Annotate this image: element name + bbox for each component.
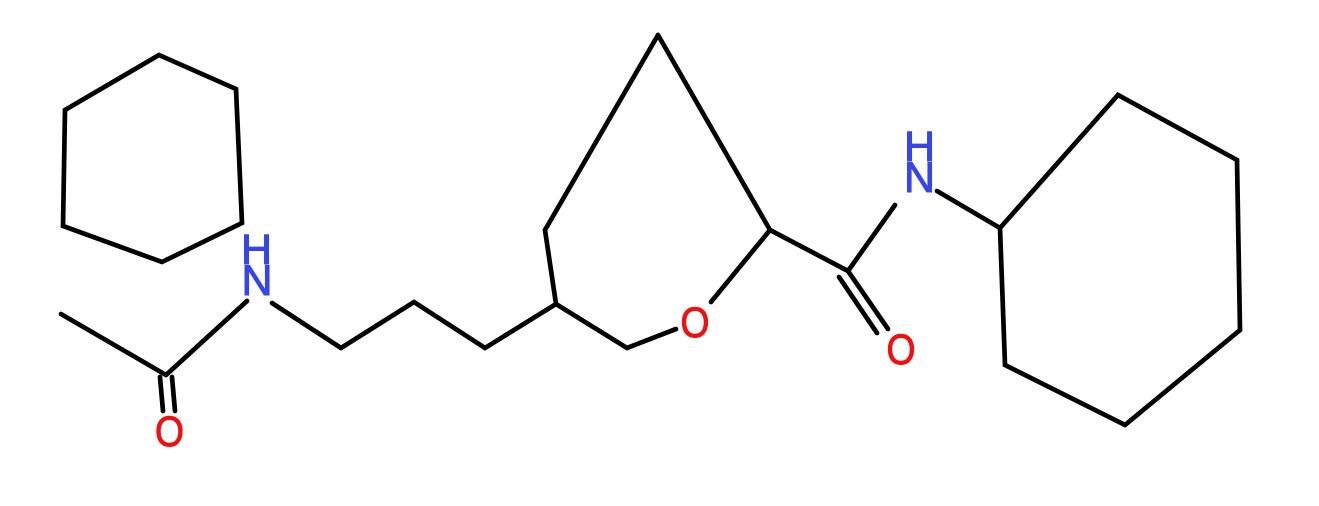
svg-text:N: N — [241, 257, 272, 305]
svg-text:O: O — [155, 408, 184, 456]
svg-text:O: O — [681, 299, 710, 347]
svg-text:N: N — [904, 154, 935, 202]
svg-text:O: O — [887, 326, 916, 374]
